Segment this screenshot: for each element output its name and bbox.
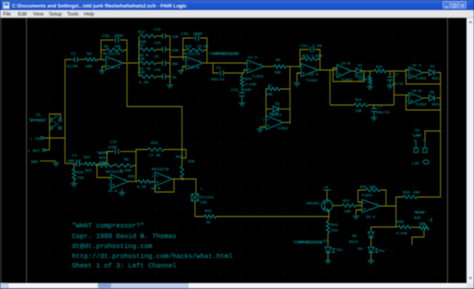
wire U2-B output xyxy=(283,122,290,124)
wire U3-A noninverting to ground xyxy=(297,73,301,82)
wire D2 to right bus xyxy=(279,108,290,110)
svg-text:'LAW': 'LAW' xyxy=(411,134,422,139)
svg-text:TL062: TL062 xyxy=(415,103,427,108)
wire R7 to right bus xyxy=(280,89,290,124)
wire R9 to feedback bus xyxy=(133,166,136,182)
wire D8 to D9 xyxy=(370,238,372,246)
svg-text:12N: 12N xyxy=(172,35,179,40)
svg-text:U4-B: U4-B xyxy=(412,89,422,94)
svg-text:C4: C4 xyxy=(72,154,77,159)
svg-text:MC33178: MC33178 xyxy=(152,168,169,173)
svg-text:4.64K: 4.64K xyxy=(396,232,408,237)
svg-text:U1-B: U1-B xyxy=(190,66,200,71)
svg-text:10K: 10K xyxy=(85,65,93,70)
svg-text:TL062: TL062 xyxy=(277,127,289,132)
wire U4-B feedback below xyxy=(406,95,441,110)
svg-text:47NP: 47NP xyxy=(108,146,118,151)
svg-text:649: 649 xyxy=(331,229,339,234)
svg-text:U5-A: U5-A xyxy=(108,189,118,194)
wire D5 to detector bus xyxy=(436,97,441,99)
wire U4-B input from bias node xyxy=(393,71,395,105)
wire branch down to C9 xyxy=(213,63,219,73)
wire ladder to U1-B input xyxy=(170,57,186,60)
wire U1-B feedback loop xyxy=(183,38,194,60)
svg-text:D9: D9 xyxy=(358,247,363,252)
svg-text:1N: 1N xyxy=(172,76,177,81)
wire pot to R9 xyxy=(112,165,114,167)
svg-text:S1: S1 xyxy=(36,113,41,118)
svg-text:N914: N914 xyxy=(349,240,359,245)
wire U3-A output xyxy=(318,69,337,71)
svg-text:R37: R37 xyxy=(343,199,350,204)
svg-text:U3-B: U3-B xyxy=(341,62,351,67)
ground at U2-B input xyxy=(257,129,263,132)
svg-text:LIN: LIN xyxy=(412,162,419,167)
svg-text:1K: 1K xyxy=(206,221,211,226)
svg-text:R41: R41 xyxy=(205,209,213,214)
svg-text:10K: 10K xyxy=(413,191,421,196)
svg-text:Help: Help xyxy=(84,12,95,18)
resistor R26 xyxy=(72,169,75,180)
ground at U1-B input xyxy=(178,71,184,74)
svg-text:MC33178: MC33178 xyxy=(183,52,200,57)
svg-text:4.64K: 4.64K xyxy=(245,83,257,88)
svg-text:R43: R43 xyxy=(331,223,339,228)
svg-text:C30, 380P: C30, 380P xyxy=(102,34,124,39)
svg-text:R15: R15 xyxy=(185,45,193,50)
svg-text:GND: GND xyxy=(31,160,39,165)
svg-text:C2: C2 xyxy=(378,104,383,109)
svg-text:R37: R37 xyxy=(84,156,91,161)
wire R37 to U6 inverting input xyxy=(356,202,362,206)
wire C45 to right bus xyxy=(166,76,170,78)
svg-text:U1-A: U1-A xyxy=(111,66,121,71)
wire diode row xyxy=(266,108,272,110)
wire input net vertical to C1 xyxy=(65,60,71,164)
wire U1-B noninverting input to ground xyxy=(183,67,187,71)
svg-text:R25: R25 xyxy=(176,155,184,160)
svg-text:U5-B: U5-B xyxy=(151,187,161,192)
wire U2-B feedback box xyxy=(266,89,268,121)
wire R30 to C5 xyxy=(156,62,163,64)
resistor R24 xyxy=(241,73,243,76)
svg-text:27.4K: 27.4K xyxy=(149,154,161,159)
wire U1-A output to ladder xyxy=(123,62,139,64)
svg-text:C1: C1 xyxy=(71,52,77,57)
svg-text:'GAIN': 'GAIN' xyxy=(96,151,110,156)
wire GND port xyxy=(40,160,56,162)
svg-text:R35: R35 xyxy=(414,216,422,221)
svg-text:Tools: Tools xyxy=(67,12,79,18)
svg-text:63K: 63K xyxy=(188,160,196,165)
led D7 YEL xyxy=(325,247,331,253)
wire S1 switch outline xyxy=(50,114,61,150)
wire U4-A feedback below xyxy=(406,70,441,85)
wire input net corner to C4 row xyxy=(65,163,74,165)
svg-text:20K: 20K xyxy=(274,71,282,76)
wire bias row xyxy=(330,104,354,106)
capacitor C7 xyxy=(389,71,391,76)
wire Q1 emitter to bus xyxy=(328,211,330,217)
svg-text:'BIAS': 'BIAS' xyxy=(413,211,427,216)
wire C30 to output node xyxy=(120,40,127,62)
svg-text:U6-A: U6-A xyxy=(366,215,376,220)
svg-text:R14: R14 xyxy=(355,98,363,103)
wire U2-B noninverting to ground xyxy=(260,127,266,128)
op-amp U3-A xyxy=(301,64,318,77)
svg-text:D8: D8 xyxy=(352,234,357,239)
svg-text:C7: C7 xyxy=(394,73,399,78)
ground below R32 xyxy=(369,84,371,87)
wire R20 to U5-B xyxy=(151,181,155,183)
svg-text:R38: R38 xyxy=(397,220,405,225)
svg-text:C5: C5 xyxy=(154,55,159,60)
svg-text:MC33178: MC33178 xyxy=(106,170,123,175)
svg-text:VTL5C9: VTL5C9 xyxy=(200,196,214,201)
svg-text:R31: R31 xyxy=(376,65,384,70)
wire R25 to U5-B output xyxy=(181,179,183,180)
svg-text:View: View xyxy=(33,12,44,18)
svg-text:D2: D2 xyxy=(275,102,280,107)
resistor R43 xyxy=(328,217,329,222)
svg-text:D1: D1 xyxy=(358,64,363,69)
wire C1 to R1 xyxy=(81,59,86,61)
svg-text:"WHAT compressor?": "WHAT compressor?" xyxy=(72,223,144,231)
svg-text:1.00K: 1.00K xyxy=(311,54,323,59)
wire R14 to C2 node xyxy=(368,104,394,106)
wire C5 to right bus xyxy=(166,62,170,64)
wire R12 to C15 xyxy=(156,35,163,37)
svg-text:C25: C25 xyxy=(154,41,162,46)
wire U1-B output xyxy=(203,62,247,64)
wire ladder right bus xyxy=(169,36,171,84)
wire U6 noninverting to ground xyxy=(356,210,362,215)
svg-text:8.2K: 8.2K xyxy=(137,185,147,190)
svg-text:L IN: L IN xyxy=(30,137,40,142)
svg-text:C13, 160P: C13, 160P xyxy=(231,88,252,93)
svg-text:220K: 220K xyxy=(358,78,368,83)
svg-text:MC33178: MC33178 xyxy=(103,52,120,57)
svg-text:U3-A: U3-A xyxy=(309,73,319,78)
svg-text:R23: R23 xyxy=(99,156,107,161)
wire R40 to C45 xyxy=(156,76,163,78)
wire D4 to detector bus xyxy=(436,73,441,132)
svg-text:R36 10K: R36 10K xyxy=(360,185,377,190)
wire R17 to C25 xyxy=(156,49,163,51)
wire branch down to U2-B rectifier xyxy=(289,67,291,90)
svg-text:http://dt.prohosting.com/hacks: http://dt.prohosting.com/hacks/what.html xyxy=(72,253,233,261)
svg-text:C32: C32 xyxy=(110,140,118,145)
svg-text:75K: 75K xyxy=(77,176,85,181)
svg-text:R40: R40 xyxy=(138,71,146,76)
svg-text:File: File xyxy=(3,12,11,18)
wire ladder left bus xyxy=(138,36,140,77)
ground below C13 xyxy=(241,96,243,103)
svg-text:'YEL': 'YEL' xyxy=(334,248,345,253)
svg-text:10K: 10K xyxy=(344,210,352,215)
svg-text:D7: D7 xyxy=(324,239,329,244)
svg-text:Copr. 1999 David B. Thomas: Copr. 1999 David B. Thomas xyxy=(72,233,176,241)
ground below R26 xyxy=(71,184,77,187)
wire C35 to output node xyxy=(200,38,207,63)
svg-text:Sheet 1 of 3: Left Channel: Sheet 1 of 3: Left Channel xyxy=(72,262,176,270)
svg-text:TL062: TL062 xyxy=(415,77,427,82)
svg-text:R9: R9 xyxy=(124,158,129,163)
wire R43 to D7 xyxy=(327,233,329,246)
ground below C2 xyxy=(373,112,375,118)
ground below C7 xyxy=(389,80,391,85)
wire R1 to U1-A xyxy=(97,59,105,61)
wire S3 to detector bus xyxy=(425,131,441,140)
wire C9 to R24 node xyxy=(224,70,247,73)
svg-text:U2-A: U2-A xyxy=(248,56,258,61)
svg-text:10K: 10K xyxy=(355,109,363,114)
capacitor C2 xyxy=(373,105,375,108)
wire C25 to right bus xyxy=(166,49,170,51)
ground at GND port xyxy=(55,161,57,162)
svg-text:S3: S3 xyxy=(415,129,420,134)
wire R6 to U3-A and rectifier branch xyxy=(286,66,300,68)
svg-text:L OUT: L OUT xyxy=(28,149,41,154)
svg-text:U2-B: U2-B xyxy=(269,112,279,117)
wire R37 to gain stage xyxy=(83,163,85,165)
svg-text:Setup: Setup xyxy=(49,12,62,18)
svg-text:+: + xyxy=(428,219,430,223)
svg-text:'YEL': 'YEL' xyxy=(376,249,387,254)
ground at U3-A input xyxy=(294,83,300,86)
wire LED to bottom bus xyxy=(195,201,204,217)
svg-text:C45: C45 xyxy=(154,68,162,73)
svg-text:6.2M: 6.2M xyxy=(139,81,149,86)
ground at ladder bus xyxy=(167,85,173,88)
svg-text:10N: 10N xyxy=(172,49,179,54)
wire detector bus down to R34 xyxy=(417,131,441,197)
ground below D9 xyxy=(368,261,374,264)
svg-text:1U/NP: 1U/NP xyxy=(66,65,79,70)
wire R31 node to U4-A inverting input xyxy=(398,70,406,72)
wire L OUT to switch xyxy=(47,149,50,151)
svg-text:dt@dt.prohosting.com: dt@dt.prohosting.com xyxy=(72,243,152,251)
svg-text:C35, 300P: C35, 300P xyxy=(181,32,203,37)
svg-text:C:\Documents and Settings\...\: C:\Documents and Settings\...\old junk f… xyxy=(12,3,187,9)
wire R29 to R25 xyxy=(164,150,186,167)
wire U5-B output to LED xyxy=(172,179,196,194)
svg-text:R30: R30 xyxy=(138,57,146,62)
svg-text:C15: C15 xyxy=(154,28,162,33)
wire U1-A output tap down to R25 xyxy=(127,63,182,158)
svg-text:LED: LED xyxy=(200,201,208,206)
wire compression control drop xyxy=(329,70,331,105)
wire C15 to right bus xyxy=(166,35,170,37)
wire R35 wiper down xyxy=(412,230,424,245)
svg-text:C34, 2.5N: C34, 2.5N xyxy=(300,44,322,49)
ground at U6 input xyxy=(353,216,359,219)
svg-text:R29: R29 xyxy=(151,141,159,146)
wire C34 to output node xyxy=(315,50,320,71)
svg-text:R26: R26 xyxy=(77,171,85,176)
svg-text:TL062: TL062 xyxy=(306,79,318,84)
ground below D7 xyxy=(325,261,331,264)
svg-text:R1: R1 xyxy=(87,52,93,57)
wire U6 output xyxy=(380,206,396,227)
wire U5-B feedback below xyxy=(155,179,174,192)
wire U5-A output to R20 xyxy=(128,181,138,183)
svg-text:N914: N914 xyxy=(432,103,442,108)
wire U3-A feedback box xyxy=(300,50,309,67)
wire R31 to filter node xyxy=(386,70,409,72)
svg-text:TL062: TL062 xyxy=(361,194,373,199)
svg-text:D5: D5 xyxy=(430,91,435,96)
svg-text:20K: 20K xyxy=(266,93,274,98)
svg-text:TL062: TL062 xyxy=(341,78,353,83)
svg-text:562: 562 xyxy=(85,169,93,174)
svg-text:R6: R6 xyxy=(276,58,281,63)
svg-text:10U/16: 10U/16 xyxy=(376,111,390,116)
resistor R32 xyxy=(369,71,371,76)
wire bias to D8 chain xyxy=(371,227,396,231)
svg-text:3N3: 3N3 xyxy=(172,62,180,67)
svg-text:Edit: Edit xyxy=(18,12,27,18)
wire L IN to input net xyxy=(45,137,65,139)
svg-text:R20: R20 xyxy=(128,175,136,180)
svg-text:TL062: TL062 xyxy=(252,75,264,80)
wire D7 to ground xyxy=(327,253,329,260)
wire U1-A noninverting input to ground xyxy=(102,67,106,71)
svg-text:U4-A: U4-A xyxy=(412,64,422,69)
svg-text:D4: D4 xyxy=(430,65,435,70)
svg-text:R12: R12 xyxy=(138,30,146,35)
wire bottom bus xyxy=(216,216,329,218)
ground at U5-A input xyxy=(121,189,123,193)
wire U3-B feedback below xyxy=(333,68,364,82)
wire +9V to Q1 collector xyxy=(326,190,328,200)
wire R34 to U6 output node xyxy=(396,197,403,206)
svg-text:'BYPASS': 'BYPASS' xyxy=(28,119,47,124)
svg-text:2N4401: 2N4401 xyxy=(306,202,320,207)
wire U2-A output to R6 xyxy=(264,66,274,68)
wire Q1 output to R37 xyxy=(333,205,343,207)
wire U1-A feedback loop xyxy=(101,40,114,60)
ground at U1-A input xyxy=(99,71,105,74)
wire D1 to R31 xyxy=(362,70,374,72)
wire D9 to ground xyxy=(370,253,372,260)
svg-text:68U/16: 68U/16 xyxy=(211,78,225,83)
